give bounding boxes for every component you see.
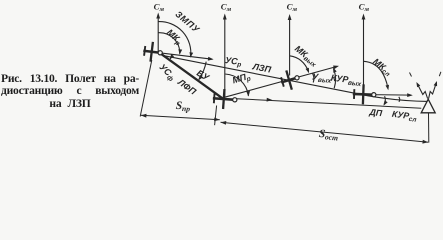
svg-text:ДП: ДП [368,107,383,118]
svg-text:Cм: Cм [221,1,232,13]
svg-text:ЛЗП: ЛЗП [251,61,273,75]
svg-text:Cм: Cм [359,1,370,13]
svg-text:Sост: Sост [318,128,339,143]
svg-text:ЗМПУ: ЗМПУ [173,9,201,35]
svg-text:МПр: МПр [231,71,252,87]
svg-text:Cм: Cм [287,1,298,13]
svg-text:Cм: Cм [154,1,165,13]
svg-text:УСр: УСр [224,55,242,69]
svg-text:УСф: УСф [156,62,178,83]
svg-text:КУРсл: КУРсл [391,109,417,124]
svg-text:Увых: Увых [312,71,333,84]
svg-text:Sпр: Sпр [175,100,190,114]
svg-text:МКсл: МКсл [370,56,394,78]
